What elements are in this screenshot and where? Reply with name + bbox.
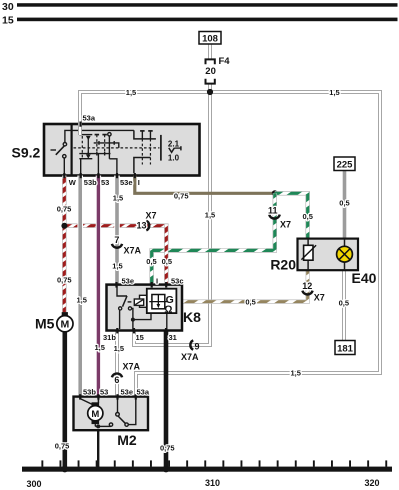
fuse F4 20A: [206, 59, 215, 83]
wire green/white node to R20: [275, 193, 308, 238]
svg-text:7: 7: [114, 235, 119, 245]
svg-text:181: 181: [337, 343, 354, 354]
svg-text:31b: 31b: [103, 333, 116, 342]
svg-text:X7: X7: [146, 211, 157, 221]
svg-text:1,5: 1,5: [290, 368, 300, 377]
svg-text:225: 225: [337, 160, 354, 171]
svg-text:K8: K8: [183, 309, 201, 325]
svg-text:300: 300: [26, 479, 41, 489]
svg-text:S9.2: S9.2: [12, 145, 41, 161]
svg-text:31: 31: [169, 333, 177, 342]
bus 30: [17, 3, 398, 6]
lamp E40: [344, 239, 346, 247]
wire 53 purple S9.2 to M2: [96, 176, 101, 397]
connector box 225: [334, 157, 355, 171]
svg-text:X7A: X7A: [181, 352, 199, 362]
svg-text:1,5: 1,5: [113, 194, 123, 203]
wire K8 31b to M2 53e via X7A pin 6 (hollow): [115, 331, 119, 397]
wire 225 to E40 grey: [343, 171, 347, 239]
wire 53e grey S9.2 to K8 via X7A pin 7: [114, 176, 120, 285]
svg-text:R20: R20: [270, 257, 296, 273]
relay K8 box: [107, 285, 183, 331]
svg-text:53e: 53e: [122, 276, 135, 285]
wire brown/white K8 G to R20 via X7 pin 12: [182, 270, 308, 301]
svg-text:108: 108: [202, 34, 218, 45]
svg-text:X7: X7: [280, 219, 291, 229]
svg-text:1,5: 1,5: [94, 343, 104, 352]
terminal ticks K8: [115, 282, 167, 333]
connector X7 pin 12: [302, 291, 312, 295]
wire red/white down to K8 53c: [164, 224, 168, 285]
svg-text:X7: X7: [314, 293, 325, 303]
svg-text:2.1: 2.1: [168, 139, 180, 148]
wire fuse to node (hollow): [208, 84, 212, 92]
ground wire K8 31 to 300: [164, 331, 169, 467]
connector X7A pin 6: [112, 373, 122, 377]
svg-text:0,75: 0,75: [160, 443, 175, 452]
connector X7 pin 13: [146, 221, 149, 231]
connector X7A pin 7: [112, 244, 122, 248]
svg-text:15: 15: [2, 15, 14, 27]
svg-text:30: 30: [2, 1, 14, 13]
svg-text:M: M: [61, 319, 70, 331]
svg-text:0,75: 0,75: [55, 441, 70, 450]
svg-text:M5: M5: [35, 316, 55, 332]
node W junction: [61, 223, 67, 229]
ground bus 300: [22, 467, 392, 472]
svg-text:1.0: 1.0: [168, 153, 180, 162]
svg-text:0,5: 0,5: [339, 198, 349, 207]
motor M2 box: [74, 397, 149, 431]
svg-text:53e: 53e: [121, 388, 134, 397]
svg-text:53b: 53b: [84, 178, 97, 187]
svg-text:310: 310: [205, 478, 220, 488]
wire E40 to 181 (hollow): [342, 270, 346, 340]
R20 / E40 box: [298, 239, 359, 271]
ground wire M2 to 300: [97, 426, 99, 466]
svg-text:1,5: 1,5: [205, 211, 215, 220]
svg-text:1,5: 1,5: [112, 262, 122, 271]
svg-text:I: I: [138, 178, 140, 187]
svg-text:E40: E40: [352, 270, 377, 286]
K8 G timer module: [147, 289, 177, 313]
node under fuse: [207, 89, 213, 95]
svg-text:0,75: 0,75: [174, 192, 189, 201]
motor M5: [62, 312, 68, 315]
connector X7 pin 11: [269, 215, 280, 219]
svg-text:15: 15: [136, 333, 144, 342]
svg-text:53a: 53a: [137, 388, 150, 397]
svg-text:12: 12: [302, 281, 312, 291]
svg-text:0,5: 0,5: [302, 212, 312, 221]
svg-text:X7A: X7A: [123, 361, 141, 371]
connector box 181: [335, 341, 355, 355]
svg-text:X7A: X7A: [124, 245, 142, 255]
svg-text:F4: F4: [219, 56, 231, 67]
svg-text:9: 9: [195, 342, 200, 352]
svg-text:0,75: 0,75: [57, 276, 72, 285]
terminal ticks S9.2: [63, 122, 136, 179]
svg-text:1,5: 1,5: [76, 296, 86, 305]
wire green/white node to K8 I via X7 pin 11: [152, 193, 275, 284]
svg-text:Ω: Ω: [164, 304, 172, 315]
svg-text:1,5: 1,5: [329, 88, 339, 97]
svg-text:13: 13: [136, 221, 146, 231]
wire 108 to fuse (hollow): [208, 44, 212, 59]
S9.2 internal contacts: [51, 130, 181, 173]
svg-text:53a: 53a: [83, 113, 96, 122]
M2 motor: [80, 397, 136, 427]
svg-text:53: 53: [100, 388, 108, 397]
wire red/white W branch to X7 pin 13 (horizontal): [64, 223, 166, 227]
connector box 108: [199, 32, 221, 45]
resistor R20: [307, 239, 309, 246]
K8 contact: [117, 285, 167, 331]
svg-text:1,5: 1,5: [126, 88, 136, 97]
connector X7A pin 9: [190, 340, 193, 349]
svg-text:0,5: 0,5: [245, 297, 255, 306]
wire 1,5 node to S9.2 53a (hollow): [80, 92, 210, 135]
svg-text:6: 6: [114, 375, 119, 385]
svg-text:I: I: [156, 276, 158, 285]
wire W red/white S9.2 to M5: [62, 176, 66, 313]
node brown/green junction: [272, 190, 278, 196]
svg-text:53b: 53b: [83, 388, 96, 397]
wire I brown S9.2 to node: [135, 176, 275, 194]
svg-text:53: 53: [101, 178, 109, 187]
svg-text:0,5: 0,5: [339, 299, 349, 308]
svg-text:0,5: 0,5: [146, 257, 156, 266]
svg-text:20: 20: [205, 66, 216, 77]
switch S9.2 box: [44, 124, 200, 176]
svg-text:11: 11: [268, 206, 278, 216]
svg-text:1,5: 1,5: [114, 344, 124, 353]
svg-text:W: W: [69, 178, 77, 187]
svg-text:320: 320: [364, 478, 379, 488]
wire 53b grey S9.2 to M2: [77, 176, 83, 397]
terminal ticks M2: [79, 394, 137, 399]
wire 1,5 node to K8 15 via X7A pin 9 (hollow): [134, 92, 210, 345]
wire 1,5 right loop node to M2 53a (hollow): [136, 92, 380, 397]
svg-text:53e: 53e: [120, 178, 133, 187]
svg-text:M2: M2: [117, 432, 137, 448]
svg-text:53c: 53c: [171, 276, 184, 285]
svg-text:0,5: 0,5: [162, 257, 172, 266]
ground wire M5 to 300: [63, 332, 68, 467]
svg-text:0,75: 0,75: [57, 204, 72, 213]
svg-text:M: M: [91, 409, 99, 420]
bus 15: [17, 18, 398, 22]
